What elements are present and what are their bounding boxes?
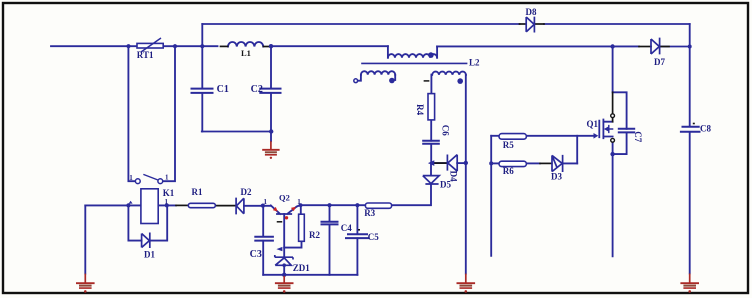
svg-text:Q2: Q2	[279, 192, 290, 202]
svg-text:1: 1	[165, 198, 169, 206]
svg-text:C1: C1	[217, 84, 229, 95]
svg-text:C3: C3	[250, 249, 262, 260]
svg-text:K1: K1	[163, 188, 175, 198]
svg-text:1: 1	[129, 174, 133, 182]
svg-text:C8: C8	[700, 123, 711, 133]
svg-text:D4: D4	[449, 171, 459, 182]
svg-text:D8: D8	[526, 7, 537, 17]
svg-text:RT1: RT1	[137, 50, 154, 60]
svg-text:R6: R6	[503, 166, 514, 176]
svg-text:C5: C5	[368, 232, 379, 242]
svg-text:L1: L1	[241, 48, 251, 58]
svg-text:1: 1	[165, 174, 169, 182]
svg-text:C7: C7	[633, 131, 643, 142]
svg-text:ZD1: ZD1	[293, 263, 311, 273]
svg-text:R2: R2	[309, 230, 320, 240]
svg-text:D2: D2	[241, 187, 252, 197]
svg-text:Q1: Q1	[587, 119, 599, 129]
svg-text:1: 1	[264, 198, 268, 206]
svg-text:R3: R3	[364, 208, 375, 218]
svg-text:C2: C2	[251, 84, 263, 95]
svg-text:D7: D7	[654, 57, 665, 67]
svg-text:R5: R5	[503, 140, 514, 150]
svg-text:D3: D3	[551, 172, 562, 182]
svg-text:R1: R1	[192, 187, 203, 197]
svg-text:C6: C6	[440, 125, 450, 136]
svg-text:L2: L2	[469, 57, 480, 67]
svg-text:R4: R4	[415, 104, 425, 115]
svg-text:C4: C4	[341, 223, 352, 233]
svg-text:1: 1	[297, 198, 301, 206]
svg-text:D1: D1	[144, 250, 155, 260]
